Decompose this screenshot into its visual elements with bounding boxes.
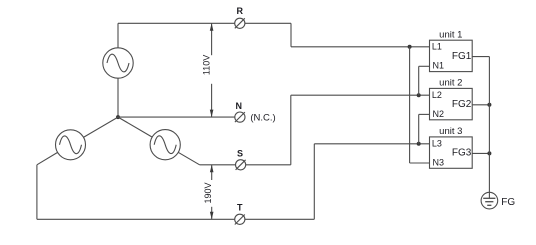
node junction T/N2 (417, 142, 421, 146)
svg-text:N2: N2 (433, 109, 445, 119)
node center junction (116, 115, 120, 119)
wire N3 feed (410, 162, 430, 164)
node junction FG2 (487, 103, 491, 107)
svg-text:T: T (237, 203, 243, 213)
wire R to L1 pin (291, 46, 430, 48)
wire S to L2 pin (291, 94, 430, 96)
unit 3 box U3 (430, 137, 473, 168)
svg-text:L1: L1 (432, 42, 442, 52)
wire FG2 (472, 104, 489, 106)
svg-text:N1: N1 (433, 61, 445, 71)
wire left diagonal lower (37, 152, 58, 164)
node junction FG3 (487, 151, 491, 155)
svg-text:L3: L3 (432, 138, 442, 148)
source G1 circle (103, 48, 133, 78)
wire right diagonal upper (118, 117, 152, 137)
source G3 sine (154, 136, 176, 154)
dimension 110V line top segment with arrow (211, 23, 213, 55)
terminal S (236, 160, 246, 170)
dimension 110V line bottom segment with arrow (211, 84, 213, 117)
svg-text:FG3: FG3 (452, 148, 472, 159)
wire T horizontal right segment (245, 218, 314, 220)
svg-text:110V: 110V (201, 55, 211, 75)
source G1 sine (107, 54, 129, 72)
unit 1 box U1 (430, 40, 473, 71)
source G3 circle (150, 130, 180, 160)
wire R top horizontal right segment (245, 22, 291, 24)
wire S riser up (290, 95, 292, 165)
wire riser T to N2 (418, 114, 420, 143)
svg-text:unit 3: unit 3 (439, 126, 462, 137)
wire riser S to N1 (418, 66, 420, 95)
dimension 190V line bottom segment with arrow (211, 207, 213, 220)
wire left diagonal upper (83, 117, 118, 137)
ground FG symbol (481, 192, 498, 209)
wire FG1 (472, 56, 489, 58)
wire T to L3 pin (314, 143, 429, 145)
wire T riser up (313, 144, 315, 220)
wire R riser down (290, 23, 292, 47)
unit 2 box U2 (430, 88, 473, 119)
wire N2 feed (419, 113, 430, 115)
source G2 sine (60, 136, 82, 154)
wire right diagonal lower (178, 152, 199, 165)
source G2 circle (56, 130, 86, 160)
node junction S/N1 (417, 93, 421, 97)
wire FG bus vertical (488, 57, 490, 199)
svg-text:R: R (236, 6, 243, 16)
terminal N (235, 112, 245, 122)
svg-text:FG2: FG2 (452, 99, 472, 110)
wire S horizontal right segment (246, 164, 291, 166)
node junction R/N3 (408, 45, 412, 49)
wire left vertical (36, 165, 38, 220)
svg-text:S: S (237, 149, 243, 159)
wire S horizontal left segment (200, 164, 236, 166)
svg-text:FG1: FG1 (452, 51, 472, 62)
svg-text:unit 1: unit 1 (439, 29, 462, 40)
svg-text:N: N (236, 101, 243, 111)
terminal R (235, 18, 245, 28)
wire T horizontal left segment (37, 218, 235, 220)
svg-text:190V: 190V (203, 182, 213, 203)
wire N1 feed (419, 65, 430, 67)
wire riser R to N3 (409, 47, 411, 163)
svg-text:N3: N3 (433, 157, 445, 167)
wire N horizontal (118, 116, 235, 118)
wire FG3 (472, 152, 489, 154)
source G1 stub down (117, 78, 119, 117)
terminal T (235, 214, 245, 224)
svg-text:(N.C.): (N.C.) (250, 113, 275, 124)
dimension 190V line top segment with arrow (211, 165, 213, 180)
wire R top horizontal left segment (118, 22, 235, 24)
svg-text:unit 2: unit 2 (439, 78, 462, 89)
source G1 top: stub up (117, 23, 119, 48)
svg-text:L2: L2 (432, 90, 442, 100)
svg-text:FG: FG (501, 197, 515, 208)
